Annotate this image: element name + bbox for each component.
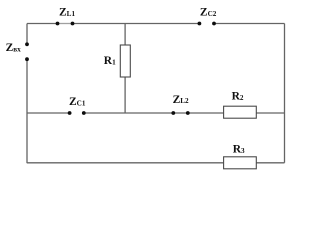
resistor R1 (120, 45, 130, 77)
node terminal ZC2 right (212, 22, 216, 26)
wire middle left segment (27, 112, 70, 114)
resistor R2 (224, 106, 257, 118)
svg-text:ZL2: ZL2 (173, 94, 189, 106)
node terminal ZC2 left (198, 22, 202, 26)
wire left lower (26, 59, 28, 163)
svg-text:R3: R3 (233, 144, 245, 156)
node terminal ZL1 right (71, 22, 75, 26)
node terminal input top (25, 42, 29, 46)
wire bottom right segment (256, 162, 284, 164)
wire middle center segment through ZL2 (84, 112, 224, 114)
wire middle right segment (256, 112, 284, 114)
node terminal ZC1 right (82, 111, 86, 115)
svg-text:ZL1: ZL1 (59, 6, 75, 18)
wire R1 bottom lead (124, 77, 126, 113)
node terminal ZC1 left (68, 111, 72, 115)
wire top middle segment (73, 23, 200, 25)
wire left upper (26, 24, 28, 45)
wire top left segment (27, 23, 58, 25)
impedance ZL1 body (faint wire between terminals) (58, 23, 73, 25)
svg-text:R1: R1 (104, 55, 116, 67)
svg-text:ZC1: ZC1 (69, 96, 86, 108)
node terminal input bottom (25, 57, 29, 61)
wire R1 top lead (124, 24, 126, 46)
node terminal ZL2 right (186, 111, 190, 115)
wire right vertical (284, 24, 286, 163)
svg-text:Zвх: Zвх (6, 42, 22, 54)
node terminal ZL1 left (56, 22, 60, 26)
resistor R3 (224, 157, 257, 169)
wire top right segment (214, 23, 285, 25)
node terminal ZL2 left (171, 111, 175, 115)
svg-text:R2: R2 (232, 91, 244, 103)
svg-text:ZC2: ZC2 (200, 7, 217, 19)
wire bottom left segment (27, 162, 224, 164)
